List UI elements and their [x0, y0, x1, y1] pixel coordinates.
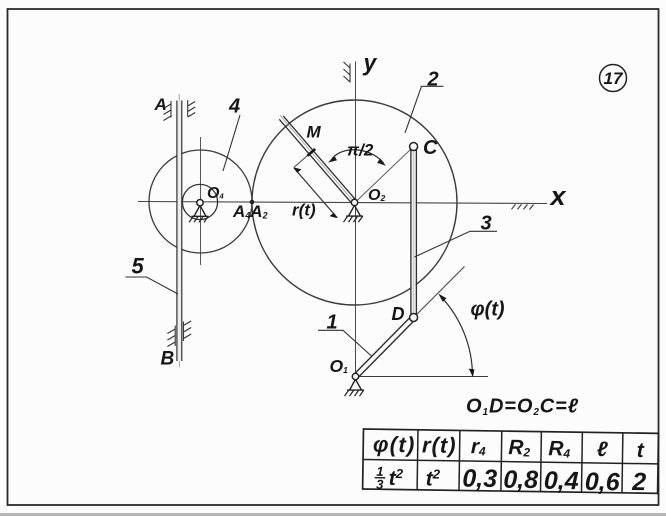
svg-text:A4A2: A4A2	[232, 202, 268, 221]
svg-text:5: 5	[132, 254, 145, 279]
svg-text:0,4: 0,4	[544, 467, 579, 496]
svg-text:t2: t2	[426, 466, 441, 490]
svg-text:2: 2	[631, 468, 646, 496]
svg-text:C: C	[423, 137, 438, 159]
svg-text:t: t	[637, 439, 645, 462]
svg-text:t2: t2	[389, 466, 404, 490]
svg-text:y: y	[363, 50, 378, 76]
svg-text:4: 4	[228, 96, 240, 118]
svg-text:R2: R2	[508, 436, 531, 459]
svg-text:D: D	[392, 304, 405, 324]
svg-text:r(t): r(t)	[422, 432, 457, 458]
svg-text:R4: R4	[548, 437, 571, 460]
svg-text:A: A	[154, 95, 167, 114]
svg-text:x: x	[549, 181, 567, 211]
svg-text:3: 3	[376, 477, 384, 492]
svg-text:O4: O4	[207, 185, 224, 202]
svg-text:O1D=O2C=ℓ: O1D=O2C=ℓ	[466, 396, 579, 419]
svg-text:ℓ: ℓ	[597, 438, 608, 461]
svg-text:0,6: 0,6	[585, 468, 621, 497]
svg-text:1: 1	[327, 312, 338, 334]
svg-text:φ(t): φ(t)	[471, 299, 505, 321]
svg-text:φ(t): φ(t)	[373, 432, 416, 458]
svg-text:0,3: 0,3	[462, 464, 497, 493]
svg-text:3: 3	[481, 213, 492, 235]
svg-text:0,8: 0,8	[503, 466, 538, 495]
svg-text:π/2: π/2	[347, 141, 374, 160]
svg-text:O1: O1	[330, 356, 349, 376]
svg-text:r4: r4	[471, 435, 487, 458]
svg-text:M: M	[307, 123, 322, 142]
svg-text:B: B	[161, 349, 175, 370]
svg-text:r(t): r(t)	[292, 201, 316, 220]
svg-text:O2: O2	[368, 187, 385, 204]
svg-text:17: 17	[604, 69, 624, 88]
svg-text:2: 2	[427, 69, 439, 91]
